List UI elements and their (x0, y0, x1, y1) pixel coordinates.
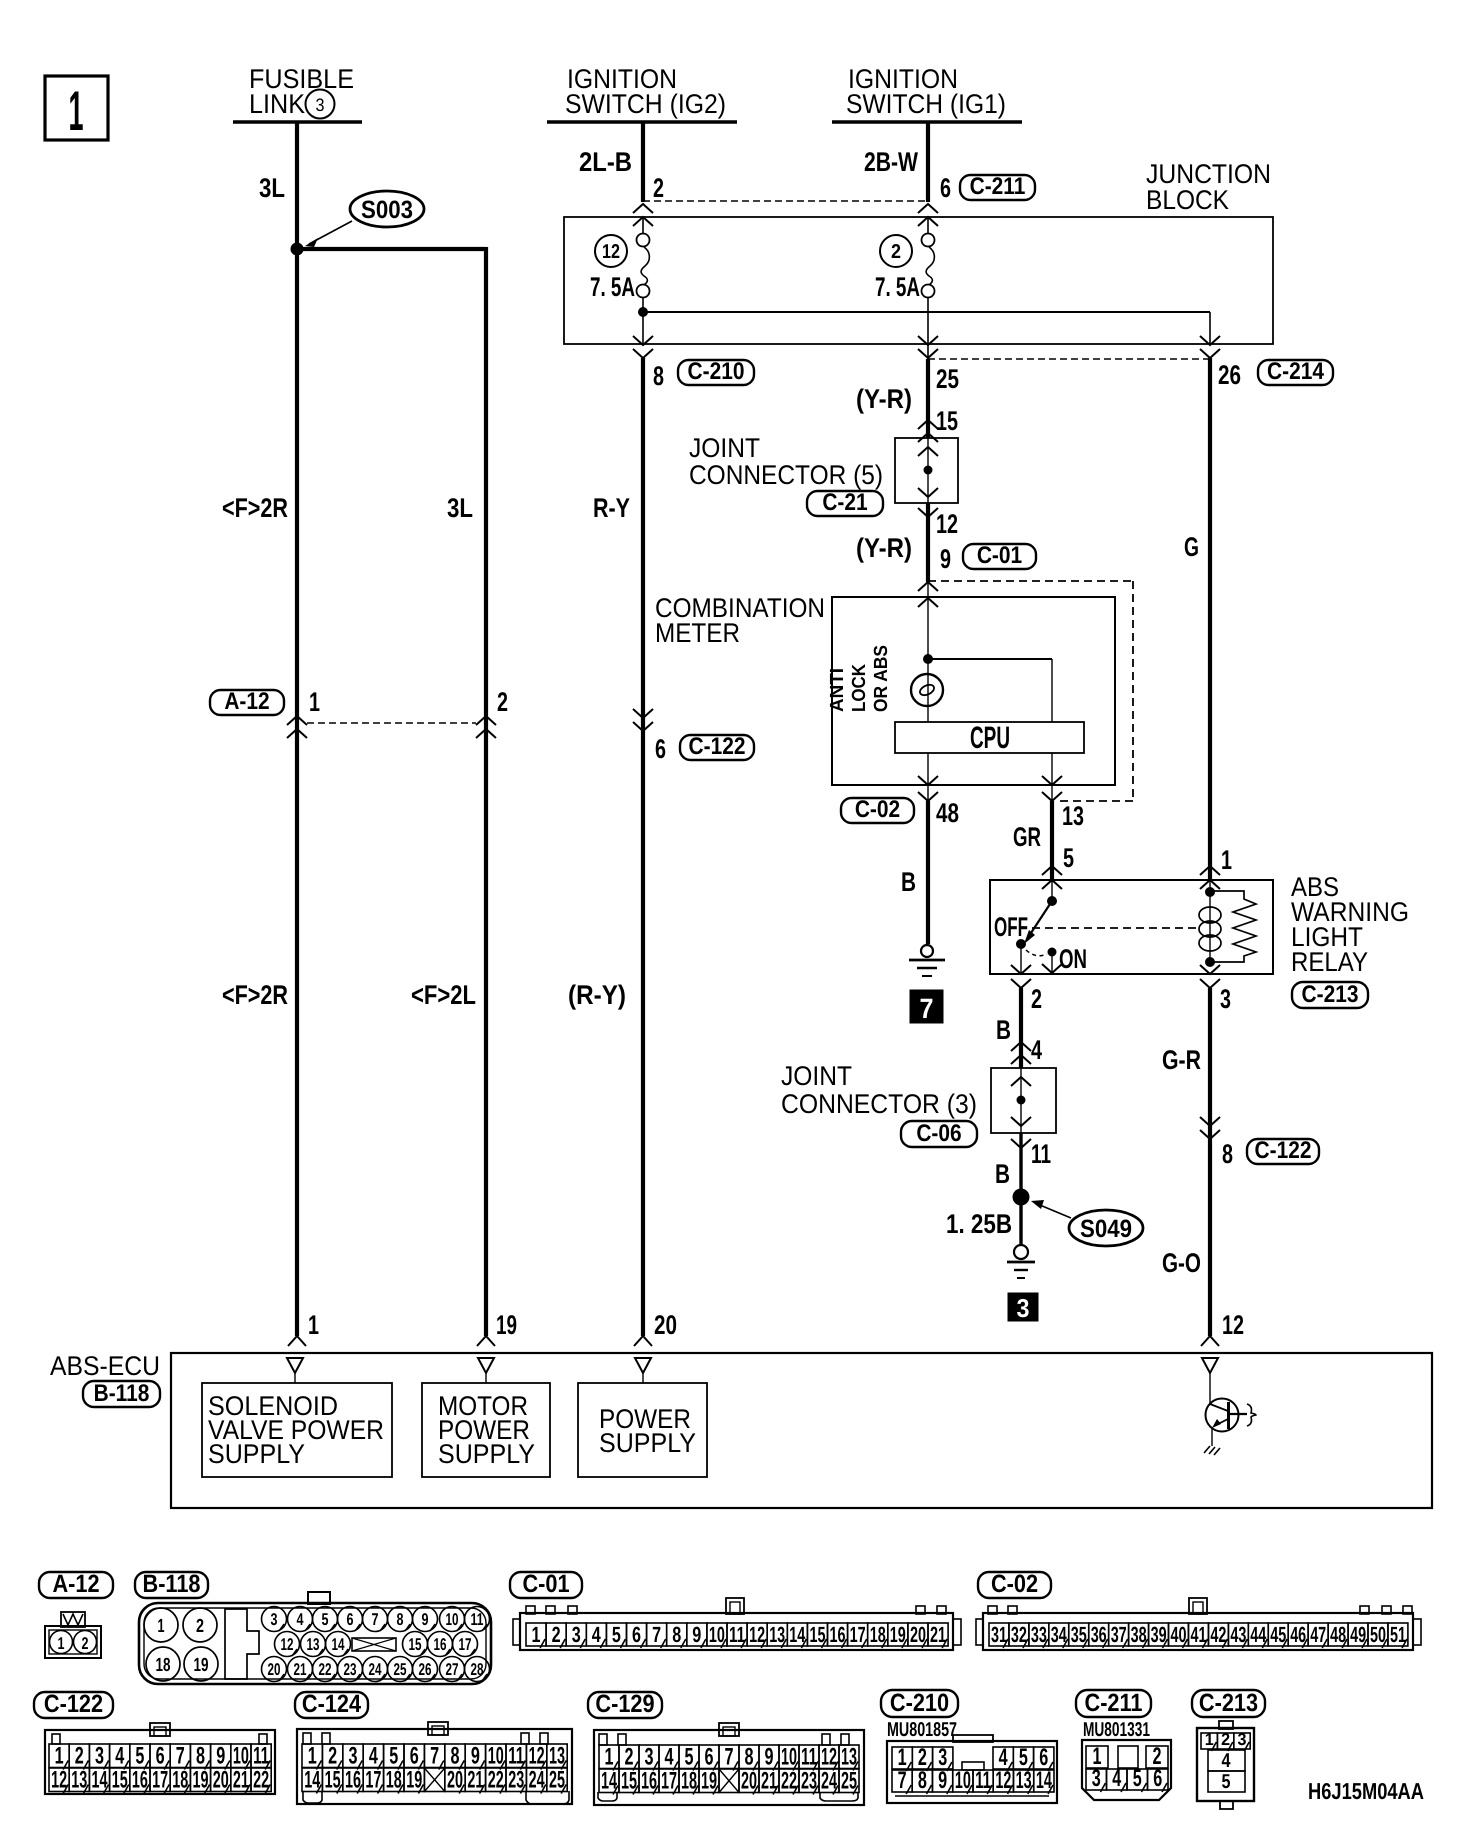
joint connector 5 entry chevrons (918, 420, 938, 442)
C-211 entry chevrons IG2 side (633, 204, 653, 226)
wire B to ground (926, 801, 930, 944)
C-122 pass-through chevrons R-Y wire (633, 709, 653, 731)
connector B-118 pinout label (135, 1570, 208, 1598)
svg-text:16: 16 (830, 1622, 846, 1647)
pin 48 label (936, 798, 959, 828)
svg-text:6: 6 (347, 1610, 354, 1629)
svg-text:CONNECTOR (5): CONNECTOR (5) (689, 460, 883, 490)
svg-text:3: 3 (572, 1622, 581, 1647)
svg-text:8: 8 (397, 1610, 404, 1629)
svg-text:47: 47 (1310, 1622, 1326, 1647)
svg-text:C-211: C-211 (1085, 1689, 1143, 1717)
svg-text:1. 25B: 1. 25B (946, 1209, 1012, 1239)
svg-text:20: 20 (910, 1622, 926, 1647)
svg-text:12: 12 (749, 1622, 765, 1647)
relay ON contact (1026, 948, 1062, 975)
wire label G-R (1162, 1045, 1201, 1075)
svg-text:3: 3 (1017, 1293, 1030, 1323)
svg-text:JOINT: JOINT (689, 433, 760, 463)
wire B to ground S049 (1019, 1133, 1022, 1245)
svg-text:2: 2 (82, 1634, 89, 1653)
svg-text:45: 45 (1270, 1622, 1286, 1647)
wire label 2B-W (864, 147, 918, 177)
svg-text:5: 5 (612, 1622, 621, 1647)
svg-text:H6J15M04AA: H6J15M04AA (1308, 1778, 1424, 1804)
svg-text:19: 19 (496, 1310, 517, 1340)
pin 2 label C-211 (653, 173, 664, 203)
svg-text:B: B (996, 1015, 1011, 1045)
wire label 1.25B (946, 1209, 1012, 1239)
connector C-210 pinout (887, 1735, 1057, 1803)
svg-text:CONNECTOR (3): CONNECTOR (3) (781, 1089, 977, 1119)
S049 callout (1031, 1200, 1143, 1246)
svg-text:MU801331: MU801331 (1083, 1719, 1150, 1741)
svg-text:8: 8 (1222, 1139, 1233, 1169)
meter exit chevrons pin 48 (918, 776, 938, 801)
wire label GR (1013, 822, 1041, 852)
ground reference 3 box (1008, 1293, 1038, 1323)
svg-text:S049: S049 (1080, 1215, 1132, 1243)
svg-text:51: 51 (1390, 1622, 1406, 1647)
connector C-01 pinout label (510, 1570, 582, 1598)
pin 26 label C-214 (1218, 360, 1241, 390)
svg-text:12: 12 (602, 241, 620, 263)
svg-text:15: 15 (810, 1622, 826, 1647)
CPU box (895, 720, 1084, 755)
wire label (Y-R) lower (856, 533, 912, 563)
ECU input triangle pin 19 (478, 1358, 494, 1383)
ECU input triangle pin 12 (1202, 1358, 1218, 1404)
pin 8 label C-210 (653, 361, 664, 391)
svg-text:OR ABS: OR ABS (871, 645, 892, 712)
svg-text:8: 8 (918, 1767, 927, 1794)
svg-text:24: 24 (369, 1660, 382, 1679)
pin 1 label relay (1221, 845, 1232, 875)
A-12 pass-through chevrons wire 1 (287, 716, 307, 738)
connector C-122 inline label (680, 733, 754, 760)
connector C-01 inline label (963, 542, 1036, 569)
connector C-124 pinout label (295, 1690, 368, 1718)
svg-text:(R-Y): (R-Y) (568, 980, 626, 1010)
wire G-R G-O to ABS-ECU (1208, 988, 1212, 1336)
connector C-01 pinout (513, 1598, 961, 1650)
combination meter dashed boundary (928, 581, 1133, 801)
svg-text:B-118: B-118 (143, 1570, 201, 1598)
ECU input triangle pin 1 (287, 1358, 303, 1383)
svg-text:22: 22 (319, 1660, 332, 1679)
fuse 12 rating 7.5A (590, 272, 635, 302)
motor power supply block (422, 1383, 550, 1477)
wire end pin 20 ABS-ECU (634, 1310, 677, 1346)
junction block bus node (638, 307, 648, 317)
splice S003 node (291, 243, 304, 256)
ABS warning lamp (911, 674, 943, 706)
svg-text:35: 35 (1071, 1622, 1087, 1647)
pin 15 label (936, 406, 958, 436)
pin 2 of A-12 (497, 687, 508, 717)
svg-text:4: 4 (369, 1743, 378, 1770)
svg-text:5: 5 (389, 1743, 398, 1770)
svg-text:5: 5 (1063, 843, 1074, 873)
svg-text:4: 4 (1031, 1035, 1042, 1065)
svg-text:RELAY: RELAY (1291, 947, 1368, 977)
svg-text:2: 2 (328, 1743, 337, 1770)
connector C-210 pinout label (881, 1689, 958, 1717)
dashed connector line C-211 (643, 200, 928, 202)
meter internal wire (927, 597, 929, 722)
svg-text:C-01: C-01 (522, 1570, 569, 1598)
pin 9 label (940, 544, 951, 574)
svg-text:2B-W: 2B-W (864, 147, 918, 177)
svg-text:1: 1 (158, 1616, 165, 1637)
svg-text:7: 7 (725, 1744, 734, 1771)
svg-text:1: 1 (1221, 845, 1232, 875)
connector B-118 pinout (139, 1592, 491, 1684)
svg-text:3: 3 (645, 1744, 654, 1771)
junction block label (1146, 159, 1271, 215)
svg-text:4: 4 (592, 1622, 602, 1647)
relay entry chevrons pin 5 (1042, 866, 1062, 889)
svg-text:1: 1 (605, 1744, 614, 1771)
svg-text:3: 3 (95, 1743, 104, 1770)
ground hatch transistor emitter (1204, 1446, 1220, 1455)
svg-text:9: 9 (765, 1744, 774, 1771)
wire 2L-B from IG2 (641, 122, 645, 202)
svg-text:21: 21 (294, 1660, 307, 1679)
svg-text:9: 9 (422, 1610, 429, 1629)
svg-text:27: 27 (446, 1660, 459, 1679)
svg-text:13: 13 (307, 1635, 320, 1654)
svg-text:2: 2 (1031, 984, 1042, 1014)
junction block exit chevrons R-Y wire (633, 336, 653, 358)
svg-text:SWITCH (IG1): SWITCH (IG1) (846, 89, 1006, 119)
fusible link 3 power source (233, 64, 362, 122)
connector A-12 pinout label (39, 1570, 113, 1598)
svg-text:5: 5 (1133, 1765, 1142, 1792)
svg-text:33: 33 (1031, 1622, 1047, 1647)
svg-text:LOCK: LOCK (849, 664, 870, 712)
svg-text:2: 2 (891, 241, 901, 263)
ECU input triangle pin 20 (635, 1358, 651, 1383)
svg-text:5: 5 (135, 1743, 144, 1770)
wire 2B-W from IG1 (926, 122, 930, 202)
svg-text:ABS-ECU: ABS-ECU (50, 1351, 160, 1381)
joint connector 3 exit chevron (1011, 1139, 1031, 1148)
svg-text:43: 43 (1230, 1622, 1246, 1647)
wire label G (1184, 532, 1199, 562)
svg-text:37: 37 (1111, 1622, 1127, 1647)
connector B-118 inline label (83, 1380, 160, 1407)
svg-text:19: 19 (890, 1622, 906, 1647)
svg-text:(Y-R): (Y-R) (856, 384, 912, 414)
S003 callout (305, 191, 424, 247)
pin 2 label relay (1031, 984, 1042, 1014)
joint connector 5 exit chevron (918, 508, 938, 517)
svg-text:B: B (995, 1159, 1010, 1189)
fuse 2 symbol (922, 234, 935, 298)
svg-text:B-118: B-118 (94, 1380, 150, 1407)
relay exit chevrons pin 2 (1011, 944, 1031, 988)
svg-text:8: 8 (745, 1744, 754, 1771)
svg-text:6: 6 (156, 1743, 165, 1770)
fuse 12 symbol (637, 234, 650, 298)
svg-text:METER: METER (655, 618, 740, 648)
meter internal branch node (923, 654, 1052, 722)
svg-text:11: 11 (471, 1610, 484, 1629)
svg-text:<F>2R: <F>2R (222, 980, 288, 1010)
wire Y-R segment to joint connector (926, 359, 930, 438)
svg-text:6: 6 (705, 1744, 714, 1771)
svg-text:1: 1 (69, 79, 84, 142)
svg-text:3: 3 (316, 95, 325, 115)
ground reference 7 box (910, 990, 943, 1024)
solenoid valve power supply block (202, 1383, 392, 1477)
ABS-ECU box (171, 1353, 1432, 1508)
svg-text:SUPPLY: SUPPLY (599, 1428, 696, 1458)
wire label F2R lower (222, 980, 288, 1010)
pin 3 label relay (1220, 984, 1231, 1014)
svg-text:49: 49 (1350, 1622, 1366, 1647)
connector A-12 pinout (45, 1612, 101, 1658)
relay ON label (1059, 944, 1087, 974)
svg-text:4: 4 (297, 1610, 304, 1629)
pin 8 label C-122 right (1222, 1139, 1233, 1169)
svg-text:11: 11 (1031, 1139, 1051, 1169)
svg-text:R-Y: R-Y (593, 493, 630, 523)
svg-text:20: 20 (654, 1310, 677, 1340)
combination meter box (832, 597, 1115, 785)
pin 5 label relay (1063, 843, 1074, 873)
wire end pin 19 ABS-ECU (477, 1310, 517, 1346)
svg-text:C-211: C-211 (970, 173, 1026, 200)
fuse 2 number circle (880, 235, 912, 267)
page number box 1 (45, 76, 108, 142)
svg-text:15: 15 (409, 1635, 422, 1654)
A-12 pass-through chevrons wire 2 (476, 716, 496, 738)
svg-text:<F>2L: <F>2L (411, 980, 476, 1010)
connector C-213 pinout label (1192, 1689, 1265, 1717)
svg-text:C-122: C-122 (1255, 1137, 1312, 1164)
wire R-Y vertical run (641, 358, 645, 1336)
svg-text:3: 3 (1092, 1765, 1101, 1792)
svg-text:18: 18 (156, 1655, 171, 1676)
junction block exit chevrons Y-R wire (918, 336, 938, 358)
svg-text:3: 3 (349, 1743, 358, 1770)
relay actuation dashed link (1032, 927, 1198, 929)
connector C-02 pinout label (978, 1570, 1051, 1598)
svg-text:2: 2 (653, 173, 664, 203)
svg-text:46: 46 (1290, 1622, 1306, 1647)
svg-text:5: 5 (322, 1610, 329, 1629)
ABS-ECU label (50, 1351, 160, 1381)
connector C-210 inline label (678, 358, 754, 385)
wire label (Y-R) upper (856, 384, 912, 414)
relay entry chevrons pin 1 (1200, 866, 1220, 889)
wire 3L vertical from fusible link (295, 122, 299, 1336)
svg-text:21: 21 (930, 1622, 946, 1647)
ECU output transistor (1206, 1399, 1257, 1447)
svg-text:18: 18 (870, 1622, 886, 1647)
connector C-02 pinout (976, 1598, 1421, 1650)
svg-text:39: 39 (1151, 1622, 1167, 1647)
svg-text:23: 23 (344, 1660, 357, 1679)
svg-text:G: G (1184, 532, 1199, 562)
svg-text:4: 4 (1112, 1765, 1121, 1792)
junction block bus wire (643, 312, 1210, 344)
svg-text:6: 6 (410, 1743, 419, 1770)
svg-text:C-122: C-122 (44, 1690, 103, 1718)
svg-text:7: 7 (176, 1743, 185, 1770)
svg-text:48: 48 (936, 798, 959, 828)
svg-text:2: 2 (75, 1743, 84, 1770)
svg-text:BLOCK: BLOCK (1146, 185, 1229, 215)
svg-text:A-12: A-12 (224, 688, 269, 715)
svg-text:1: 1 (308, 1310, 319, 1340)
svg-text:6: 6 (1153, 1765, 1162, 1792)
svg-text:6: 6 (632, 1622, 641, 1647)
svg-text:C-213: C-213 (1302, 981, 1359, 1008)
svg-text:25: 25 (936, 364, 959, 394)
connector C-06 inline label (901, 1120, 977, 1147)
svg-text:4: 4 (115, 1743, 124, 1770)
svg-text:2L-B: 2L-B (579, 147, 632, 177)
pin 4 label (1031, 1035, 1042, 1065)
svg-text:9: 9 (692, 1622, 701, 1647)
fuse 2 rating 7.5A (875, 272, 920, 302)
svg-text:12: 12 (281, 1635, 294, 1654)
svg-text:10: 10 (446, 1610, 459, 1629)
svg-text:C-02: C-02 (991, 1570, 1038, 1598)
svg-text:C-02: C-02 (855, 796, 900, 823)
svg-text:19: 19 (194, 1655, 209, 1676)
relay switch (1016, 880, 1057, 949)
connector C-122 inline label right (1247, 1137, 1319, 1164)
joint connector 3 label (781, 1061, 977, 1119)
svg-text:8: 8 (196, 1743, 205, 1770)
svg-text:6: 6 (940, 173, 951, 203)
connector C-211 inline label (960, 173, 1035, 200)
connector C-214 inline label (1258, 358, 1333, 385)
ground symbol meter B wire (909, 945, 945, 976)
svg-text:8: 8 (451, 1743, 460, 1770)
svg-text:8: 8 (653, 361, 664, 391)
relay coil (1199, 880, 1221, 967)
connector C-211 pinout (1082, 1740, 1171, 1800)
svg-text:6: 6 (655, 734, 666, 764)
svg-text:SUPPLY: SUPPLY (438, 1439, 535, 1469)
svg-text:C-06: C-06 (916, 1120, 961, 1147)
connector A-12 inline label (210, 688, 284, 715)
relay exit chevrons pin 3 (1200, 965, 1220, 988)
svg-text:1: 1 (532, 1622, 541, 1647)
svg-text:SWITCH (IG2): SWITCH (IG2) (565, 89, 726, 119)
svg-text:G-R: G-R (1162, 1045, 1201, 1075)
A-12 connector dashed tie line (307, 722, 476, 724)
svg-text:11: 11 (729, 1622, 745, 1647)
fuse 12 wire thin segment (642, 217, 644, 344)
connector C-21 inline label (807, 489, 883, 516)
connector C-122 pinout (45, 1723, 275, 1794)
relay label (1291, 872, 1409, 977)
svg-text:8: 8 (672, 1622, 681, 1647)
connector C-211 pinout label (1076, 1689, 1151, 1717)
svg-text:LINK: LINK (249, 89, 305, 119)
svg-text:2: 2 (552, 1622, 561, 1647)
wire end pin 12 ABS-ECU (1201, 1310, 1244, 1346)
pin 13 label (1062, 801, 1084, 831)
svg-text:12: 12 (936, 509, 958, 539)
svg-text:3L: 3L (259, 173, 285, 203)
svg-text:42: 42 (1210, 1622, 1226, 1647)
wire label B upper (996, 1015, 1011, 1045)
svg-text:2: 2 (497, 687, 508, 717)
dashed connector line C-214 (928, 358, 1210, 360)
fuse 2 wire thin segment (927, 217, 929, 359)
svg-text:SUPPLY: SUPPLY (208, 1439, 305, 1469)
svg-text:17: 17 (850, 1622, 866, 1647)
wire label F2R upper (222, 493, 288, 523)
svg-text:17: 17 (459, 1635, 472, 1654)
svg-text:12: 12 (1222, 1310, 1244, 1340)
svg-text:3L: 3L (447, 493, 473, 523)
svg-text:26: 26 (419, 1660, 432, 1679)
connector C-122 pinout label (34, 1690, 113, 1718)
svg-text:C-210: C-210 (890, 1689, 949, 1717)
svg-text:C-213: C-213 (1199, 1689, 1258, 1717)
wire GR to relay (1050, 801, 1054, 880)
svg-text:(Y-R): (Y-R) (856, 533, 912, 563)
svg-text:1: 1 (309, 687, 320, 717)
ignition switch IG1 power source (832, 64, 1022, 122)
svg-text:2: 2 (625, 1744, 634, 1771)
pin 1 of A-12 (309, 687, 320, 717)
svg-text:13: 13 (769, 1622, 785, 1647)
svg-text:1: 1 (308, 1743, 317, 1770)
meter exit chevrons pin 13 (1042, 776, 1062, 801)
joint connector 3 entry chevrons (1011, 1042, 1031, 1064)
relay OFF label (994, 912, 1028, 942)
svg-text:C-01: C-01 (977, 542, 1022, 569)
pin 6 label C-122 (655, 734, 666, 764)
wire Y-R segment to combination meter (926, 503, 930, 597)
lamp label ANTI LOCK OR ABS (827, 645, 892, 712)
svg-text:A-12: A-12 (52, 1570, 99, 1598)
pin 11 label (1031, 1139, 1051, 1169)
svg-text:9: 9 (938, 1767, 947, 1794)
svg-text:31: 31 (991, 1622, 1007, 1647)
svg-text:B: B (901, 867, 916, 897)
ABS warning light relay box (990, 880, 1273, 974)
wire label 3L branch (447, 493, 473, 523)
svg-text:15: 15 (936, 406, 958, 436)
svg-text:7: 7 (372, 1610, 379, 1629)
power supply block (578, 1383, 707, 1477)
svg-text:16: 16 (434, 1635, 447, 1654)
ground symbol S049 wire (1007, 1245, 1035, 1278)
svg-text:7: 7 (652, 1622, 661, 1647)
svg-text:C-129: C-129 (595, 1690, 654, 1718)
svg-text:GR: GR (1013, 822, 1041, 852)
connector C-211 part number (1083, 1719, 1150, 1741)
pin 6 label C-211 (940, 173, 951, 203)
svg-text:C-124: C-124 (302, 1690, 361, 1718)
ignition switch IG2 power source (547, 64, 737, 122)
wire label (R-Y) lower (568, 980, 626, 1010)
wire label G-O (1162, 1248, 1201, 1278)
svg-text:C-210: C-210 (688, 358, 745, 385)
connector C-213 inline label (1292, 981, 1368, 1008)
connector C-210 part number (887, 1719, 957, 1741)
